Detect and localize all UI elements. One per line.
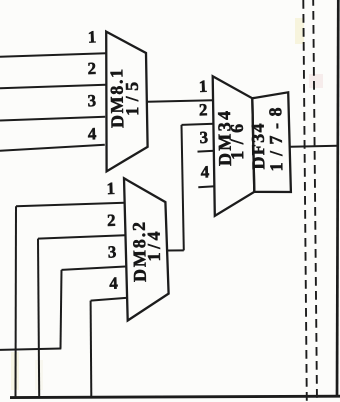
wire DM8.2 input 3 vertical drop (61, 270, 62, 349)
border bottom edge (10, 396, 340, 397)
wire DM8.1 input 4 (0, 145, 105, 151)
svg-text:1: 1 (106, 179, 115, 198)
wire DM34 input 4 stub (198, 185, 215, 188)
wire riser DM8.2 output up to DM34 input 2 (182, 125, 184, 250)
svg-text:3: 3 (199, 128, 208, 147)
svg-text:3: 3 (87, 91, 96, 110)
wire DF34 output to right edge (291, 145, 338, 148)
multiplexer DM34 trapezoid (213, 76, 255, 216)
wire DM8.2 input 2 horizontal (38, 235, 125, 238)
wire DM8.2 output horizontal (168, 249, 184, 251)
svg-text:2: 2 (107, 211, 116, 230)
border right edge (337, 0, 338, 397)
svg-text:DM8.2: DM8.2 (129, 222, 150, 282)
svg-text:2: 2 (199, 100, 208, 119)
svg-text:1/5: 1/5 (122, 82, 143, 116)
dashed line left (303, 0, 307, 402)
wire DM8.2 input 4 vertical drop (90, 301, 93, 397)
svg-text:1/6: 1/6 (227, 124, 248, 160)
scan smudge pink right (309, 74, 323, 88)
wire DM8.2 input 3 horizontal (62, 267, 126, 270)
multiplexer DM8.2 trapezoid (124, 178, 169, 320)
svg-text:1: 1 (87, 27, 96, 46)
wire DM8.1 input 2 (0, 85, 106, 89)
wire DM8.1 input 1 (0, 53, 106, 57)
scan smudge yellow bottom left (11, 352, 19, 390)
wire DM34 input 3 stub (198, 150, 215, 153)
wire DM8.1 output to DM34 input 1 (148, 100, 214, 102)
svg-text:3: 3 (107, 242, 116, 261)
wire DM8.1 input 3 (0, 117, 105, 121)
svg-text:1: 1 (198, 77, 207, 96)
wire DM8.2 input 1 horizontal (16, 203, 124, 206)
wire DM8.2 input 4 horizontal (91, 298, 126, 301)
scan smudge yellow top right (295, 18, 304, 44)
wire DM34 input 2 horizontal (182, 124, 215, 125)
wire DM8.2 input 1 vertical drop (15, 206, 18, 396)
block DF34 rectangle (252, 92, 291, 192)
svg-text:2: 2 (87, 59, 96, 78)
svg-text:4: 4 (200, 162, 210, 181)
dashed line right (313, 0, 317, 402)
multiplexer DM8.1 trapezoid (106, 32, 147, 172)
wire DM8.2 input 3 bottom horizontal to left edge (0, 349, 61, 350)
svg-text:1/4: 1/4 (144, 231, 165, 261)
wire DM8.2 input 2 vertical drop (38, 239, 39, 397)
svg-text:4: 4 (109, 274, 119, 293)
svg-text:4: 4 (87, 124, 97, 143)
